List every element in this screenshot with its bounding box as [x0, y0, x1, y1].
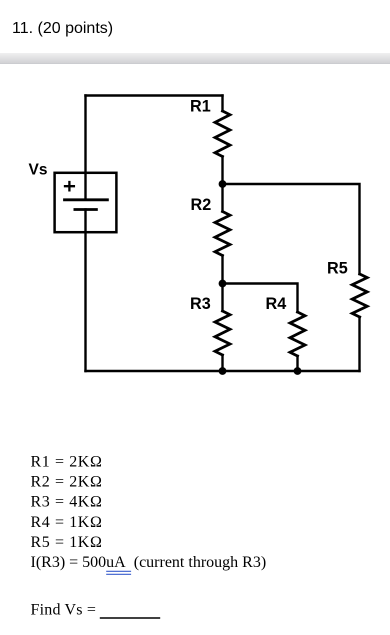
wire: branch to R5 top	[223, 184, 360, 274]
wire: middle vertical R2-R3	[221, 256, 223, 312]
node: R4 bottom junction	[294, 367, 302, 375]
answer blank line	[101, 617, 160, 619]
wire: middle vertical top stub	[221, 96, 223, 112]
wire: R4 bottom stub	[296, 356, 298, 371]
node: R2/R3/R4 junction	[219, 280, 227, 288]
svg-text:R4 = 1KΩ: R4 = 1KΩ	[31, 514, 103, 531]
wire: middle vertical R1-R2	[221, 157, 223, 212]
svg-text:R5 = 1KΩ: R5 = 1KΩ	[31, 534, 103, 551]
title	[12, 21, 113, 37]
resistor R1	[215, 111, 230, 157]
svg-text:R3 = 4KΩ: R3 = 4KΩ	[31, 494, 103, 511]
wire: top horizontal from battery to R1	[86, 94, 223, 96]
underline (blue double) under uA	[107, 571, 131, 574]
wire: R5 bottom stub	[358, 317, 360, 371]
svg-text:R2 = 2KΩ: R2 = 2KΩ	[31, 474, 103, 491]
resistor R2	[215, 212, 230, 256]
svg-text:R2: R2	[191, 196, 212, 214]
wire: left vertical upper (battery top to top wire)	[84, 96, 86, 200]
svg-text:R3: R3	[190, 295, 211, 313]
voltage source Vs (battery box with plates and + sign)	[55, 173, 117, 232]
resistor R5	[352, 274, 367, 317]
header divider band	[0, 53, 390, 63]
svg-text:I(R3) = 500uA (current throug: I(R3) = 500uA (current through R3)	[31, 554, 267, 571]
resistor R3	[215, 311, 230, 355]
resistor R4	[290, 312, 305, 356]
svg-text:R5: R5	[327, 260, 348, 278]
svg-text:Vs: Vs	[29, 162, 48, 179]
svg-text:R1: R1	[190, 97, 211, 115]
svg-text:R4: R4	[266, 295, 287, 313]
svg-text:R1 = 2KΩ: R1 = 2KΩ	[31, 454, 103, 471]
node: R1/R2/R5 junction	[219, 180, 227, 188]
wire: left vertical lower (battery bottom to bottom wire)	[84, 210, 86, 372]
wire: middle vertical R3-bottom	[221, 355, 223, 371]
wire: bottom horizontal	[86, 370, 360, 372]
wire: branch to R4 top	[223, 284, 298, 313]
node: R3 bottom junction	[219, 367, 227, 375]
svg-text:Find Vs =: Find Vs =	[31, 602, 97, 619]
